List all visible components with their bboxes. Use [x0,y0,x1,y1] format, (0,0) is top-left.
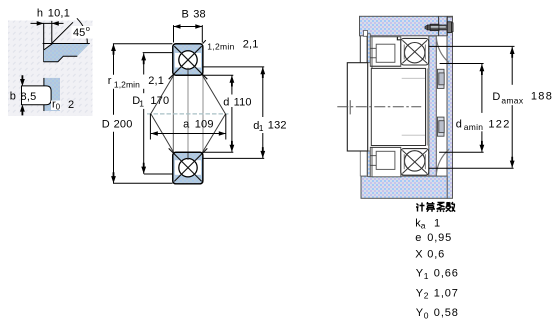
svg-text:a: a [421,220,426,230]
svg-text:a: a [183,118,190,130]
svg-text:0: 0 [56,103,61,112]
svg-text:0,66: 0,66 [434,268,459,280]
svg-text:B: B [182,9,189,21]
svg-text:1: 1 [424,271,429,281]
svg-text:2,1: 2,1 [243,38,259,50]
svg-text:200: 200 [114,118,133,130]
svg-text:r: r [108,75,112,87]
svg-text:0,95: 0,95 [427,232,452,244]
svg-text:8,5: 8,5 [21,91,37,103]
svg-text:e: e [415,232,421,244]
svg-text:Y: Y [416,287,424,299]
svg-text:d: d [223,97,229,109]
svg-text:170: 170 [150,95,169,107]
svg-text:45: 45 [73,27,85,39]
svg-text:2: 2 [68,99,74,111]
svg-text:D: D [102,118,110,130]
svg-text:38: 38 [193,9,206,21]
svg-text:1,07: 1,07 [434,287,459,299]
svg-text:o: o [86,24,90,33]
svg-text:1,2min: 1,2min [114,80,140,90]
svg-text:Y: Y [416,268,424,280]
svg-text:h: h [37,7,43,19]
svg-text:109: 109 [195,118,214,130]
svg-text:1: 1 [139,98,144,108]
svg-text:1,2min: 1,2min [207,42,234,52]
svg-text:2,1: 2,1 [148,75,164,87]
svg-text:amin: amin [464,122,484,132]
svg-text:132: 132 [268,120,287,132]
svg-text:1: 1 [259,123,264,133]
svg-text:0,58: 0,58 [434,307,459,319]
svg-text:d: d [456,118,462,130]
svg-text:Y: Y [416,307,424,319]
svg-text:b: b [10,91,16,103]
svg-text:2: 2 [424,291,429,301]
svg-text:X: X [415,249,423,261]
svg-text:122: 122 [488,118,510,130]
svg-text:amax: amax [501,95,523,105]
svg-text:1: 1 [434,217,440,229]
svg-text:110: 110 [234,97,252,109]
svg-text:0: 0 [424,311,429,321]
svg-text:188: 188 [531,90,553,102]
svg-text:0,6: 0,6 [427,249,445,261]
svg-text:D: D [492,91,500,103]
svg-text:10,1: 10,1 [48,8,70,20]
